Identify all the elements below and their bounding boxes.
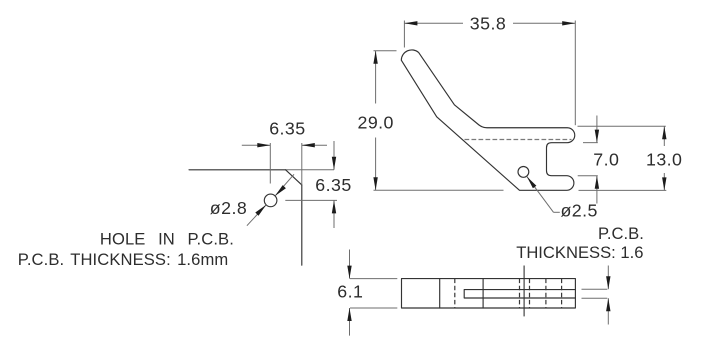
dimension 29.0 extension line top <box>374 50 397 52</box>
svg-text:ø2.5: ø2.5 <box>561 201 598 221</box>
PCB right edge <box>301 185 303 265</box>
plan inner vertical (bend line 2) <box>482 279 484 308</box>
svg-text:29.0: 29.0 <box>357 113 393 133</box>
leader o2.8 upper arrow <box>275 174 294 196</box>
dimension 6.1 arrow top <box>349 250 351 279</box>
hole in PCB (o2.8) <box>264 194 277 207</box>
svg-text:35.8: 35.8 <box>470 13 506 33</box>
dimension 29.0 line <box>375 51 377 104</box>
hidden line (PCB surface, dashed) <box>465 139 572 141</box>
dimension 35.8 extension line left <box>403 21 405 48</box>
dimension 13.0 extension line top <box>578 125 666 127</box>
dimension 6.35 right: top arrow <box>333 141 335 170</box>
PCB edge line top (plan, right) <box>582 288 608 290</box>
svg-text:THICKNESS: 1.6: THICKNESS: 1.6 <box>516 243 643 262</box>
PCB corner chamfer <box>286 170 302 185</box>
dimension 7.0 extension line top <box>583 142 598 144</box>
dimension 35.8 line <box>404 22 463 24</box>
dimension 13.0 extension line bottom <box>579 189 667 191</box>
plan outline rect <box>402 279 576 308</box>
svg-text:HOLE IN P.C.B.: HOLE IN P.C.B. <box>100 229 234 248</box>
plan inner vertical (bend line 1) <box>439 279 441 308</box>
svg-text:6.35: 6.35 <box>315 175 351 195</box>
dimension 29.0 arrowheads <box>373 51 377 64</box>
dimension 6.1 extension top <box>350 278 397 280</box>
leader o2.8 lower arrow <box>247 205 266 226</box>
hole centre horizontal extension <box>285 199 337 201</box>
svg-text:6.35: 6.35 <box>269 119 305 139</box>
hole centre vertical extension <box>269 143 271 184</box>
PCB edge line bottom (plan, right) <box>582 297 608 299</box>
dimension 13.0 line <box>663 126 665 146</box>
dimension 7.0 extension line bottom <box>578 175 598 177</box>
svg-text:6.1: 6.1 <box>337 282 363 302</box>
leader o2.5 <box>527 177 554 213</box>
svg-text:P.C.B.: P.C.B. <box>598 224 644 243</box>
dimension 6.35 top: left arrow <box>242 144 270 146</box>
dimension 6.35 top: right arrow <box>302 144 327 146</box>
dimension 6.1 extension bottom <box>350 307 397 309</box>
hole in clip (o2.5) <box>518 167 529 178</box>
plan hidden line: hole right edge <box>529 279 531 308</box>
dimension 7.0 arrow bottom <box>596 176 598 204</box>
dimension 1.6 arrow bottom <box>607 298 609 324</box>
svg-text:ø2.8: ø2.8 <box>210 198 247 218</box>
dimension 35.8 extension line right <box>574 21 576 126</box>
dimension 7.0 arrow top <box>596 116 598 143</box>
plan hidden vertical (dashed) <box>454 279 456 308</box>
svg-text:13.0: 13.0 <box>646 150 682 170</box>
dimension 6.35 right: bottom arrow <box>333 200 335 228</box>
plan hidden line: prong arc start <box>561 279 563 308</box>
plan hidden line: hole left edge <box>519 279 521 308</box>
plan slot (fork gap) <box>464 290 575 298</box>
dimension 1.6 arrow top <box>607 266 609 290</box>
dimension 13.0 arrowheads <box>662 126 666 139</box>
dimension 29.0 extension line bottom <box>374 189 504 191</box>
part outline (clip profile) <box>401 50 574 190</box>
svg-text:P.C.B. THICKNESS: 1.6mm: P.C.B. THICKNESS: 1.6mm <box>18 250 229 269</box>
svg-text:7.0: 7.0 <box>593 149 619 169</box>
PCB right edge extension (up, for 6.35 dim) <box>301 143 303 185</box>
plan centreline of hole <box>523 266 525 317</box>
plan hidden line: notch wall <box>545 279 547 308</box>
PCB top edge <box>189 169 286 171</box>
PCB top edge extension (to right 6.35 dim) <box>286 169 334 171</box>
dimension 35.8 arrowheads <box>404 21 417 25</box>
dimension 6.1 arrow bottom <box>349 308 351 336</box>
